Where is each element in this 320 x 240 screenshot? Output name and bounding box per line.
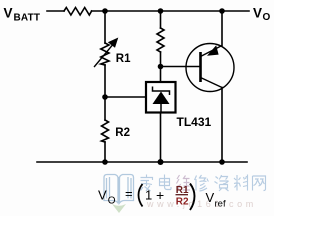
svg-text:V: V <box>98 188 107 203</box>
svg-text:O: O <box>263 12 271 23</box>
svg-text:ref: ref <box>215 199 226 210</box>
svg-text:O: O <box>108 196 116 207</box>
svg-text:BATT: BATT <box>14 13 41 24</box>
svg-text:R2: R2 <box>115 127 130 139</box>
svg-text:1: 1 <box>145 188 152 203</box>
svg-text:R2: R2 <box>176 197 189 208</box>
svg-text:+: + <box>156 187 164 203</box>
svg-text:V: V <box>4 6 13 21</box>
svg-text:TL431: TL431 <box>177 115 212 129</box>
svg-text:V: V <box>206 190 215 205</box>
svg-text:=: = <box>125 186 133 201</box>
svg-text:R1: R1 <box>116 53 131 65</box>
svg-text:V: V <box>253 6 262 21</box>
